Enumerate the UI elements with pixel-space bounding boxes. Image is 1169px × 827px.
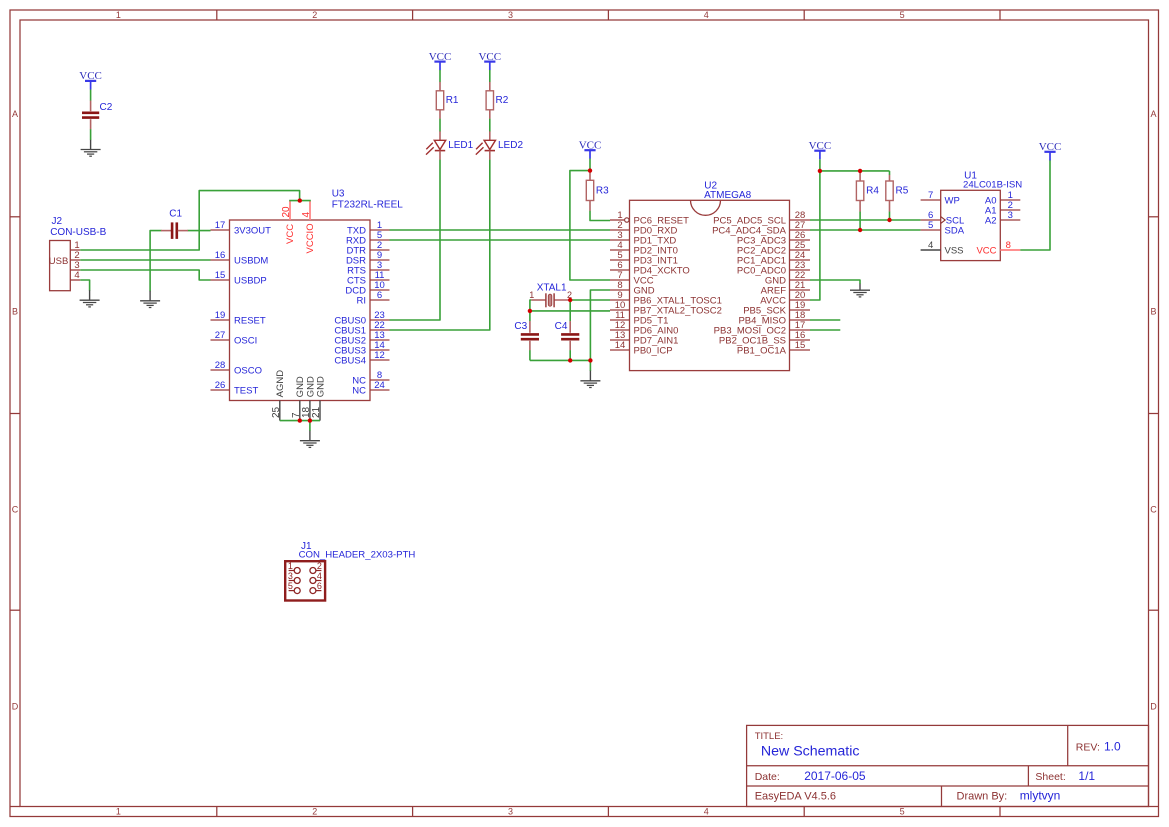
wire (C1 to ground) xyxy=(150,231,161,292)
junction (U3 gnd b) xyxy=(308,418,312,422)
svg-text:Date:: Date: xyxy=(755,771,780,783)
pin 3 A2 (U1) xyxy=(1000,219,1020,221)
pin 1 (J2) xyxy=(70,249,80,251)
pin 24 NC (U3) xyxy=(370,389,390,391)
svg-text:CBUS4: CBUS4 xyxy=(334,355,366,366)
pin 23 PC0_ADC0 (U2) xyxy=(790,269,811,271)
svg-text:RESET: RESET xyxy=(234,315,266,326)
pin 22 GND (U2) xyxy=(790,279,811,281)
svg-text:4: 4 xyxy=(704,10,709,20)
wire (XTAL pin1 down) xyxy=(530,300,531,311)
pin 5 (J1) xyxy=(289,590,295,592)
svg-text:VCCIO: VCCIO xyxy=(305,223,316,253)
svg-text:NC: NC xyxy=(352,385,366,396)
svg-text:24: 24 xyxy=(374,380,385,391)
svg-text:1: 1 xyxy=(529,290,534,300)
svg-text:R3: R3 xyxy=(596,185,609,196)
pin 25 AGND (U3) xyxy=(279,401,281,421)
wire (USBDM: J2 pin2 to U3) xyxy=(80,259,210,261)
svg-text:B: B xyxy=(1150,307,1156,317)
wire xyxy=(439,70,441,82)
junction (XTAL pin2) xyxy=(568,298,572,302)
pin 2 (J2) xyxy=(70,259,80,261)
wire (U3 power bracket) xyxy=(289,200,311,202)
pin 4 (J2) xyxy=(70,279,80,281)
junction (C4 gnd) xyxy=(568,358,572,362)
resistor R3 xyxy=(589,171,591,181)
svg-text:17: 17 xyxy=(215,220,226,231)
pin 7 VCC (U2) xyxy=(610,279,630,281)
wire (LED to CBUS1) xyxy=(390,160,490,330)
pin 7 GND (U3) xyxy=(299,401,301,421)
svg-text:1: 1 xyxy=(116,807,121,817)
junction (R4/SDA) xyxy=(858,228,862,232)
svg-text:2: 2 xyxy=(317,561,322,571)
svg-text:R2: R2 xyxy=(496,95,509,106)
junction (R5/SCL) xyxy=(887,218,891,222)
svg-text:15: 15 xyxy=(215,270,226,281)
svg-text:PB1_OC1A: PB1_OC1A xyxy=(737,345,787,356)
ground (XTAL/C3/C4) xyxy=(589,371,591,381)
svg-text:OSCI: OSCI xyxy=(234,335,257,346)
svg-text:5: 5 xyxy=(288,581,293,591)
pin 7 WP (U1) xyxy=(921,199,941,201)
pin 1 A0 (U1) xyxy=(1000,199,1020,201)
pin 4 (J1) xyxy=(316,580,322,582)
svg-text:CON-USB-B: CON-USB-B xyxy=(50,227,106,238)
pin 26 TEST (U3) xyxy=(211,389,230,391)
wire (SCL net U2 pin28 to U1) xyxy=(810,219,921,221)
svg-text:SDA: SDA xyxy=(945,225,965,236)
svg-text:AGND: AGND xyxy=(275,370,286,398)
svg-text:PB0_ICP: PB0_ICP xyxy=(634,345,673,356)
svg-text:CON_HEADER_2X03-PTH: CON_HEADER_2X03-PTH xyxy=(299,549,416,560)
svg-text:C: C xyxy=(1150,505,1157,515)
pin 19 RESET (U3) xyxy=(211,319,230,321)
pin 19 PB5_SCK (U2) xyxy=(790,309,811,311)
wire (TXD net) xyxy=(390,229,611,231)
svg-text:TEST: TEST xyxy=(234,385,258,396)
svg-text:5: 5 xyxy=(928,220,933,231)
pin 20 AVCC (U2) xyxy=(790,299,811,301)
svg-text:ATMEGA8: ATMEGA8 xyxy=(704,190,751,201)
pin 17 3V3OUT (U3) xyxy=(211,229,230,231)
svg-text:12: 12 xyxy=(374,350,385,361)
pin 13 CBUS2 (U3) xyxy=(370,339,390,341)
svg-text:3: 3 xyxy=(508,10,513,20)
pin 1 PC6_RESET (U2) xyxy=(610,219,624,221)
pin 6 RI (U3) xyxy=(370,299,390,301)
pin 17 PB3_MOSI_OC2 (U2) xyxy=(790,329,811,331)
svg-text:USB: USB xyxy=(49,256,69,267)
pin 3 PD1_TXD (U2) xyxy=(610,239,630,241)
svg-text:mlytvyn: mlytvyn xyxy=(1020,789,1061,803)
svg-text:VSS: VSS xyxy=(945,245,964,256)
wire (R5 to SCL) xyxy=(889,212,891,220)
wire (xtal ground bus) xyxy=(530,359,591,361)
pin 28 OSCO (U3) xyxy=(211,369,230,371)
wire xyxy=(90,129,92,140)
svg-text:RI: RI xyxy=(357,295,367,306)
pin 27 PC4_ADC4_SDA (U2) xyxy=(790,229,811,231)
svg-text:USBDM: USBDM xyxy=(234,255,268,266)
pin 6 SCL (U1) xyxy=(921,219,941,221)
junction (XTAL pin1 / C3) xyxy=(528,309,532,313)
wire (U3 ground bus) xyxy=(280,420,320,422)
svg-text:J2: J2 xyxy=(52,216,63,227)
wire (VCC rail to R4/R5) xyxy=(820,170,890,172)
pin 23 CBUS0 (U3) xyxy=(370,319,390,321)
svg-text:5: 5 xyxy=(900,807,905,817)
pin 16 USBDM (U3) xyxy=(211,259,230,261)
ground (U3) xyxy=(309,431,311,441)
LED LED2 xyxy=(489,131,491,140)
svg-text:27: 27 xyxy=(215,330,226,341)
svg-text:C1: C1 xyxy=(169,208,182,219)
svg-text:21: 21 xyxy=(311,406,322,418)
svg-text:16: 16 xyxy=(215,250,226,261)
ground (J2 pin4) xyxy=(89,290,91,300)
svg-text:3V3OUT: 3V3OUT xyxy=(234,225,271,236)
svg-text:2: 2 xyxy=(312,807,317,817)
pin 2 PD0_RXD (U2) xyxy=(610,229,630,231)
wire (PB7 net) xyxy=(530,310,610,312)
pin 24 PC1_ADC1 (U2) xyxy=(790,259,811,261)
resistor R4 xyxy=(859,171,861,181)
wire (USBDP: J2 pin3 to U3) xyxy=(80,270,210,280)
wire (U2 pin18 stub) xyxy=(810,319,840,321)
wire xyxy=(589,159,591,171)
svg-text:A: A xyxy=(12,109,18,119)
svg-text:1: 1 xyxy=(116,10,121,20)
svg-text:GND: GND xyxy=(315,376,326,397)
pin 21 AREF (U2) xyxy=(790,289,811,291)
svg-text:3: 3 xyxy=(288,571,293,581)
ground (C1) xyxy=(149,291,151,301)
wire (VBUS: J2 pin1 up to U3 power) xyxy=(80,191,299,250)
pin 3 (J2) xyxy=(70,269,80,271)
svg-text:FT232RL-REEL: FT232RL-REEL xyxy=(332,200,404,211)
wire (to U3 ground) xyxy=(309,421,311,431)
pin 16 PB2_OC1B_SS (U2) xyxy=(790,339,811,341)
svg-text:8: 8 xyxy=(1006,240,1011,251)
svg-text:4: 4 xyxy=(301,212,312,218)
svg-text:28: 28 xyxy=(215,360,226,371)
svg-text:1.0: 1.0 xyxy=(1104,740,1121,754)
junction (gnd bus) xyxy=(588,358,592,362)
svg-text:D: D xyxy=(1150,702,1157,712)
ground (C2) xyxy=(90,140,92,150)
svg-text:Sheet:: Sheet: xyxy=(1035,771,1065,783)
wire xyxy=(489,119,491,132)
wire (SDA net U2 pin27 to U1) xyxy=(810,229,921,231)
svg-text:U3: U3 xyxy=(332,188,345,199)
svg-text:3: 3 xyxy=(1008,210,1013,221)
svg-text:New Schematic: New Schematic xyxy=(761,744,860,760)
pin 5 SDA (U1) xyxy=(921,229,941,231)
svg-text:20: 20 xyxy=(281,206,292,218)
wire (J2 pin4 to ground) xyxy=(80,280,89,291)
resistor R5 xyxy=(889,171,891,175)
pin 4 PD2_INT0 (U2) xyxy=(610,249,630,251)
resistor R2 xyxy=(489,82,491,91)
svg-text:R4: R4 xyxy=(866,185,879,196)
junction (U3 gnd a) xyxy=(298,418,302,422)
wire (RXD net) xyxy=(390,239,611,241)
wire (C4 down) xyxy=(569,350,571,360)
wire xyxy=(90,90,92,101)
wire (U2 pin17 stub) xyxy=(810,329,840,331)
svg-text:4: 4 xyxy=(317,571,322,581)
capacitor C2 xyxy=(90,101,92,112)
pin 18 PB4_MISO (U2) xyxy=(790,319,811,321)
svg-text:19: 19 xyxy=(215,310,226,321)
svg-text:A2: A2 xyxy=(985,215,997,226)
wire (C3 down) xyxy=(529,350,531,360)
pin 13 PD7_AIN1 (U2) xyxy=(610,339,630,341)
svg-text:C2: C2 xyxy=(100,102,113,113)
svg-text:Drawn By:: Drawn By: xyxy=(957,791,1008,803)
wire (AVCC to VCC) xyxy=(810,171,820,300)
pin 21 GND (U3) xyxy=(319,401,321,421)
wire xyxy=(439,119,441,132)
pin 6 PD4_XCKTO (U2) xyxy=(610,269,630,271)
pin 2 DTR (U3) xyxy=(370,249,390,251)
svg-text:WP: WP xyxy=(945,195,960,206)
pin 10 PB7_XTAL2_TOSC2 (U2) xyxy=(610,309,630,311)
svg-text:1: 1 xyxy=(288,561,293,571)
pin 6 (J1) xyxy=(316,590,322,592)
svg-text:R5: R5 xyxy=(896,185,909,196)
svg-text:B: B xyxy=(12,307,18,317)
pin 1 TXD (U3) xyxy=(370,229,390,231)
pin 1 (J1) xyxy=(289,570,295,572)
pin 2 A1 (U1) xyxy=(1000,209,1020,211)
pin 5 RXD (U3) xyxy=(370,239,390,241)
ground (U2 pin22) xyxy=(859,284,861,290)
wire (R4 to SDA) xyxy=(859,212,861,230)
svg-text:4: 4 xyxy=(704,807,709,817)
svg-text:VCC: VCC xyxy=(285,224,296,244)
wire (3V3OUT to C1) xyxy=(188,230,211,232)
svg-text:24LC01B-ISN: 24LC01B-ISN xyxy=(963,180,1022,191)
pin 22 CBUS1 (U3) xyxy=(370,329,390,331)
pin 20 VCC (U3) xyxy=(289,201,291,220)
svg-text:5: 5 xyxy=(900,10,905,20)
pin 15 USBDP (U3) xyxy=(211,279,230,281)
pin 14 CBUS3 (U3) xyxy=(370,349,390,351)
svg-text:14: 14 xyxy=(615,340,626,351)
pin 27 OSCI (U3) xyxy=(211,339,230,341)
pin 8 NC (U3) xyxy=(370,379,390,381)
svg-text:TITLE:: TITLE: xyxy=(755,731,784,742)
pin 28 PC5_ADC5_SCL (U2) xyxy=(790,219,811,221)
junction (U3 power) xyxy=(298,198,302,202)
svg-text:C3: C3 xyxy=(514,321,527,332)
svg-text:7: 7 xyxy=(928,190,933,201)
pin 25 PC2_ADC2 (U2) xyxy=(790,249,811,251)
svg-text:C: C xyxy=(12,505,19,515)
pin 11 CTS (U3) xyxy=(370,279,390,281)
wire (PB6/XTAL net) xyxy=(570,299,610,301)
wire (R3 to RESET pin) xyxy=(590,211,610,221)
wire xyxy=(819,159,821,171)
svg-text:6: 6 xyxy=(317,581,322,591)
svg-text:26: 26 xyxy=(215,380,226,391)
pin 18 GND (U3) xyxy=(309,401,311,421)
pin 11 PD5_T1 (U2) xyxy=(610,319,630,321)
junction (VCC/AVCC) xyxy=(818,169,822,173)
svg-text:R1: R1 xyxy=(446,95,459,106)
pin 14 PB0_ICP (U2) xyxy=(610,349,630,351)
junction (R4 top) xyxy=(858,169,862,173)
wire (U2 pin22 GND) xyxy=(810,280,860,284)
svg-text:6: 6 xyxy=(377,290,382,301)
svg-text:15: 15 xyxy=(795,340,806,351)
pin 5 PD3_INT1 (U2) xyxy=(610,259,630,261)
svg-text:REV:: REV: xyxy=(1076,742,1100,754)
pin 9 PB6_XTAL1_TOSC1 (U2) xyxy=(610,299,630,301)
svg-text:D: D xyxy=(12,702,19,712)
pin 3 (J1) xyxy=(289,580,295,582)
resistor R1 xyxy=(439,82,441,91)
svg-text:VCC: VCC xyxy=(976,245,996,256)
LED LED1 xyxy=(439,131,441,140)
svg-text:3: 3 xyxy=(508,807,513,817)
svg-text:4: 4 xyxy=(74,270,79,281)
wire (LED to CBUS0) xyxy=(390,160,441,320)
svg-text:2017-06-05: 2017-06-05 xyxy=(804,769,866,783)
pin 4 VCCIO (U3) xyxy=(309,201,311,220)
svg-text:LED2: LED2 xyxy=(498,140,523,151)
svg-text:C4: C4 xyxy=(555,321,568,332)
pin 4 VSS (U1) xyxy=(921,249,941,251)
pin 15 PB1_OC1A (U2) xyxy=(790,349,811,351)
svg-text:A: A xyxy=(1150,109,1156,119)
wire (VCC to U2 pin7) xyxy=(570,171,610,280)
pin 3 RTS (U3) xyxy=(370,269,390,271)
pin 8 GND (U2) xyxy=(610,289,630,291)
pin 8 VCC (U1) xyxy=(1000,249,1020,251)
svg-text:LED1: LED1 xyxy=(448,140,473,151)
pin 9 DSR (U3) xyxy=(370,259,390,261)
wire (to xtal ground) xyxy=(589,360,591,371)
pin 12 CBUS4 (U3) xyxy=(370,359,390,361)
svg-text:USBDP: USBDP xyxy=(234,275,267,286)
svg-text:4: 4 xyxy=(928,240,933,251)
svg-text:OSCO: OSCO xyxy=(234,365,262,376)
pin 2 (J1) xyxy=(316,570,322,572)
svg-text:EasyEDA V4.5.6: EasyEDA V4.5.6 xyxy=(755,791,836,803)
svg-text:2: 2 xyxy=(312,10,317,20)
wire (U2 pin8 GND) xyxy=(590,290,610,360)
pin 26 PC3_ADC3 (U2) xyxy=(790,239,811,241)
wire xyxy=(489,70,491,82)
wire (U1 VCC) xyxy=(1020,160,1050,250)
pin 10 DCD (U3) xyxy=(370,289,390,291)
svg-text:25: 25 xyxy=(271,406,282,418)
svg-text:XTAL1: XTAL1 xyxy=(537,283,567,294)
pin 12 PD6_AIN0 (U2) xyxy=(610,329,630,331)
svg-text:1/1: 1/1 xyxy=(1078,769,1095,783)
junction (VCC/R3) xyxy=(588,168,592,172)
